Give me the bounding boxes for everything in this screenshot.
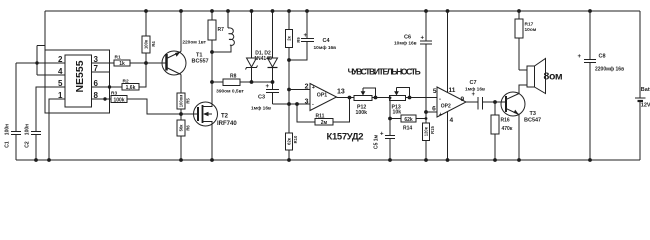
svg-text:6: 6 <box>94 79 99 88</box>
wire T1 collector down <box>180 75 182 94</box>
resistor R10 vertical <box>286 133 299 162</box>
potentiometer P12 100k <box>354 88 377 116</box>
svg-text:C1: C1 <box>5 141 11 148</box>
svg-text:R3: R3 <box>111 91 117 97</box>
svg-text:+: + <box>266 84 270 90</box>
resistor R2 1,6k <box>122 79 139 92</box>
svg-text:100k: 100k <box>356 110 368 116</box>
wire OP2 output <box>466 101 478 103</box>
svg-text:1,6k: 1,6k <box>126 85 136 91</box>
node gate <box>179 112 183 116</box>
svg-text:C7: C7 <box>470 80 477 86</box>
svg-text:1N4148: 1N4148 <box>254 56 272 62</box>
svg-text:R2: R2 <box>123 79 129 85</box>
svg-text:NE555: NE555 <box>74 60 86 92</box>
resistor R3 100k <box>111 91 127 104</box>
svg-text:C3: C3 <box>258 95 265 101</box>
resistor R9 vertical <box>286 9 302 89</box>
diode D1 1N4148 <box>246 9 258 82</box>
node pin6 at box edge <box>108 85 111 88</box>
svg-text:8: 8 <box>94 91 99 100</box>
svg-text:5: 5 <box>58 79 63 88</box>
wire OP2 pin4 ground <box>447 112 449 160</box>
svg-text:R6: R6 <box>186 125 191 131</box>
op-amp OP1 <box>305 84 345 111</box>
pin 8 wire <box>92 98 112 100</box>
wire R3 to gate node <box>127 99 181 114</box>
svg-text:R4: R4 <box>151 41 156 47</box>
pin 1 wire to ground <box>49 99 65 160</box>
svg-text:3: 3 <box>94 55 99 64</box>
diode D2 1N4148 <box>268 9 278 89</box>
transistor T1 BC557 <box>146 51 209 75</box>
battery 12V <box>635 11 650 160</box>
op-amp OP2 <box>432 87 466 124</box>
svg-text:IRF740: IRF740 <box>217 121 237 127</box>
svg-text:7: 7 <box>94 64 99 73</box>
svg-text:390ом 0,5вт: 390ом 0,5вт <box>216 89 244 95</box>
node OP1 output <box>348 96 352 100</box>
svg-text:-: - <box>439 97 441 103</box>
svg-text:BC547: BC547 <box>524 118 541 124</box>
wire left supply drop <box>44 11 46 50</box>
wire pin6 junction <box>424 110 428 114</box>
svg-text:100н: 100н <box>25 124 31 135</box>
svg-text:4: 4 <box>58 67 63 76</box>
pin 5 wire to C2 <box>36 87 65 132</box>
svg-text:R14: R14 <box>403 126 412 132</box>
wire top supply rail <box>45 10 640 12</box>
svg-text:2: 2 <box>58 55 63 64</box>
svg-text:C4: C4 <box>323 38 331 44</box>
svg-text:R1: R1 <box>115 55 121 61</box>
svg-text:R11: R11 <box>316 113 325 119</box>
wire T2 source to rail <box>211 126 213 160</box>
wire T2 drain up <box>211 52 213 102</box>
svg-text:12V: 12V <box>641 103 650 109</box>
pin 3 wire <box>92 62 115 64</box>
resistor R15 vertical <box>423 123 436 162</box>
svg-text:R8: R8 <box>230 74 237 80</box>
svg-text:1k: 1k <box>119 61 125 67</box>
resistor R4 vertical <box>142 9 156 63</box>
svg-text:2: 2 <box>305 84 309 91</box>
wire C3 to OP1 pin3 <box>273 103 311 105</box>
wire C1 bottom to rail <box>15 135 17 161</box>
svg-text:1мф 16в: 1мф 16в <box>465 85 485 92</box>
svg-text:C8: C8 <box>599 54 606 60</box>
resistor R7 220ом 1вт <box>182 9 224 52</box>
svg-text:6: 6 <box>432 106 436 113</box>
svg-text:10мф 16в: 10мф 16в <box>394 40 417 47</box>
svg-text:10ом: 10ом <box>525 27 537 33</box>
IC U1 NE555 outer box <box>45 50 110 113</box>
resistor R11 2м feedback <box>295 98 349 127</box>
svg-text:T2: T2 <box>221 114 229 120</box>
wire R2 up to base node <box>139 63 146 87</box>
wire pin2-pin4 jumper <box>36 46 38 76</box>
wire jog from supply drop <box>37 45 45 47</box>
svg-text:К157УД2: К157УД2 <box>327 132 364 143</box>
inductor L1 <box>212 9 234 52</box>
svg-text:4: 4 <box>450 117 454 124</box>
wire T3 emitter to rail <box>518 115 520 161</box>
svg-text:R16: R16 <box>501 118 510 124</box>
capacitor C6 10мф 16в <box>394 9 432 112</box>
svg-text:2м: 2м <box>321 120 328 126</box>
pin 4 wire <box>37 74 65 76</box>
wire T3 collector to speaker <box>519 85 527 94</box>
wire C1 column <box>15 63 17 132</box>
svg-text:5: 5 <box>433 88 437 95</box>
svg-text:220ом 1вт: 220ом 1вт <box>182 40 206 46</box>
svg-text:120к: 120к <box>424 126 429 136</box>
pin 6 wire <box>92 86 123 88</box>
wire T1 emitter to rail <box>180 11 182 52</box>
svg-text:1мф 16в: 1мф 16в <box>251 105 271 112</box>
capacitor C5 1м <box>374 96 396 162</box>
svg-text:R5: R5 <box>186 98 191 104</box>
svg-text:C6: C6 <box>404 35 411 41</box>
wire R1 to base node <box>130 62 146 64</box>
wire bottom ground rail <box>16 159 640 161</box>
svg-text:Batt: Batt <box>641 87 650 93</box>
resistor R16 470к <box>491 102 513 162</box>
wire OP2 pin11 power <box>446 9 450 13</box>
svg-text:C5 1м: C5 1м <box>374 134 380 149</box>
svg-text:R10: R10 <box>293 135 298 143</box>
svg-text:100н: 100н <box>5 124 11 135</box>
wire C2 bottom to rail <box>35 135 37 161</box>
svg-text:10мф 16в: 10мф 16в <box>314 44 337 51</box>
capacitor C7 1мф 16в <box>465 80 485 110</box>
transistor T2 IRF740 mosfet <box>181 102 237 127</box>
wire to OP1 pin2 <box>287 88 291 92</box>
svg-text:R17: R17 <box>525 22 534 28</box>
svg-text:8ом: 8ом <box>544 70 563 82</box>
svg-text:+: + <box>472 92 476 98</box>
resistor R17 10ом <box>515 9 537 70</box>
wire bias column down <box>288 90 290 134</box>
capacitor C2 <box>31 132 41 135</box>
svg-text:+: + <box>439 112 442 118</box>
node pin8 <box>103 97 106 100</box>
svg-text:100k: 100k <box>113 98 124 104</box>
IC U1 NE555 body <box>65 55 92 107</box>
svg-text:13: 13 <box>337 89 345 96</box>
resistor R1 1k <box>114 55 130 68</box>
svg-text:ЧУВСТВИТЕЛЬНОСТЬ: ЧУВСТВИТЕЛЬНОСТЬ <box>348 67 421 77</box>
pin 2 wire <box>16 62 65 64</box>
resistor R5 100ом <box>177 93 191 120</box>
wire OP1 output <box>337 97 355 99</box>
resistor R14 62k <box>390 115 426 132</box>
capacitor C3 1мф 16в <box>251 84 279 112</box>
svg-text:10k: 10k <box>393 110 402 116</box>
svg-text:T3: T3 <box>530 111 536 117</box>
svg-text:BC557: BC557 <box>192 59 209 65</box>
svg-text:+: + <box>312 85 315 91</box>
svg-text:C2: C2 <box>25 141 31 148</box>
svg-text:-: - <box>312 102 314 108</box>
svg-text:R15: R15 <box>430 125 435 133</box>
pin 7 stub <box>92 71 110 73</box>
svg-text:470к: 470к <box>502 126 513 132</box>
svg-text:100ом: 100ом <box>179 95 184 108</box>
svg-text:+: + <box>421 36 425 42</box>
svg-text:1: 1 <box>58 91 63 100</box>
capacitor C8 2200мф 16в <box>578 9 625 162</box>
svg-text:R9: R9 <box>296 37 301 43</box>
resistor R8 390ом <box>210 74 274 95</box>
wire C7 to T3 base <box>483 101 507 103</box>
svg-text:62к: 62к <box>287 137 292 145</box>
speaker 8ом <box>519 59 563 94</box>
wire P13 to OP2 pin5 <box>406 97 438 99</box>
svg-text:+: + <box>380 132 384 138</box>
node drain top <box>210 50 214 54</box>
svg-text:3: 3 <box>305 99 309 106</box>
svg-text:56к: 56к <box>179 124 184 132</box>
capacitor C1 <box>11 132 21 135</box>
svg-text:62k: 62k <box>404 117 413 123</box>
capacitor C4 10мф 16в <box>287 9 336 62</box>
wire P12 to P13 <box>372 97 390 99</box>
svg-text:R7: R7 <box>218 27 225 33</box>
potentiometer P13 10k <box>390 88 412 116</box>
svg-text:2200мф 16в: 2200мф 16в <box>595 66 624 73</box>
resistor R6 56к <box>177 120 191 162</box>
svg-text:+: + <box>578 54 582 60</box>
svg-text:+: + <box>304 33 308 39</box>
transistor T3 BC547 <box>501 92 541 124</box>
svg-text:11: 11 <box>449 87 456 94</box>
node base of T1 <box>144 61 148 65</box>
svg-text:9: 9 <box>461 96 465 103</box>
svg-text:100к: 100к <box>144 39 149 49</box>
svg-text:OP1: OP1 <box>317 92 327 98</box>
svg-text:OP2: OP2 <box>441 104 451 110</box>
